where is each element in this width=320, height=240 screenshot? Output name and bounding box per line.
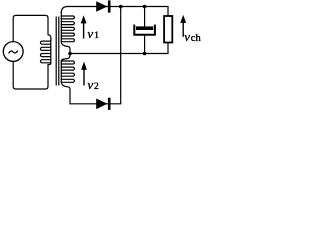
center tap node — [68, 52, 72, 56]
svg-text:1: 1 — [94, 31, 99, 41]
capacitor C1 bottom plate (cup) — [134, 25, 155, 34]
wire capacitor bottom lead — [144, 36, 146, 54]
svg-text:v: v — [184, 29, 190, 44]
diode D1 — [96, 0, 110, 12]
wire bottom rail — [70, 103, 121, 105]
node: capacitor bottom junction — [143, 52, 147, 56]
svg-text:v: v — [87, 77, 93, 92]
node: capacitor top junction — [143, 5, 147, 9]
diode D2 — [96, 98, 110, 110]
svg-text:2: 2 — [94, 82, 99, 92]
node: D1/D2 junction — [119, 5, 123, 9]
label v2 — [87, 77, 99, 92]
wire primary bottom — [13, 61, 48, 89]
transformer secondary bottom half — [61, 55, 74, 104]
wire D2 output vertical — [120, 7, 122, 104]
arrow v1 — [81, 15, 87, 38]
transformer primary coil — [40, 35, 50, 65]
label vch — [184, 29, 201, 44]
wire center-tap rail — [70, 42, 168, 54]
wire resistor top lead — [167, 7, 169, 17]
wire primary top — [13, 15, 48, 41]
transformer core — [55, 17, 57, 85]
wire capacitor top lead — [144, 7, 146, 27]
label v1 — [87, 26, 99, 41]
wire top rail — [68, 6, 169, 8]
svg-text:v: v — [87, 26, 93, 41]
transformer secondary top half — [61, 7, 74, 52]
svg-text:ch: ch — [191, 33, 202, 44]
resistor R1 — [164, 16, 172, 43]
arrow vch — [180, 15, 186, 37]
capacitor C1 top plate — [136, 26, 153, 30]
AC source tilde — [9, 51, 17, 53]
AC source V1 — [3, 42, 23, 62]
arrow v2 — [81, 62, 87, 85]
